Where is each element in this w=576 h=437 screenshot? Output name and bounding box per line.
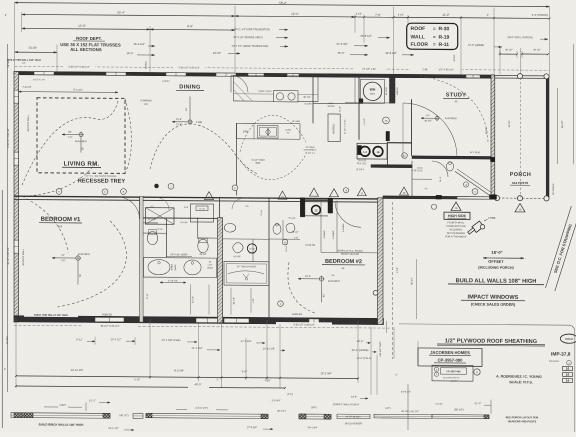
high side note box bbox=[444, 212, 470, 219]
circled 78 tag bbox=[343, 188, 348, 193]
bed2 closet walls bbox=[305, 215, 328, 217]
refrigerator bbox=[328, 114, 340, 142]
oven box and circles 1-4 1E bbox=[357, 143, 387, 159]
filled dot tag on marriage line bbox=[155, 184, 159, 188]
window symbols top wall bbox=[34, 72, 54, 75]
kitchen dashed circles bbox=[240, 115, 306, 152]
beam detail 2 bbox=[146, 413, 268, 418]
pointing hand look icon bbox=[467, 220, 486, 237]
corner lazy susan cabinet diagonals bbox=[234, 82, 253, 101]
study fan prep bbox=[435, 116, 439, 120]
hitch oval bbox=[560, 334, 576, 343]
dark circle tag 12 bbox=[312, 205, 321, 214]
bedroom1-bath wall bbox=[140, 196, 144, 322]
circled tag 28 bbox=[383, 117, 390, 124]
left exterior wall hatched bbox=[14, 71, 19, 322]
bath2 corner shower diagonal bbox=[455, 171, 490, 195]
bath2 counter bbox=[411, 161, 413, 196]
beam detail 3 bbox=[299, 414, 331, 419]
circled letter tags on walls bbox=[56, 189, 62, 195]
overall width dimension 56'-2" bbox=[15, 3, 550, 7]
window symbols bottom wall bbox=[95, 317, 124, 322]
title block enclosure rounded frame bbox=[399, 324, 575, 434]
study dashed ceiling curve bbox=[420, 76, 488, 144]
porch interior vertical dashes bbox=[520, 78, 522, 198]
bedroom1 ceiling dashed arc bbox=[55, 220, 126, 308]
bath2 door arc bbox=[432, 161, 448, 177]
hall bath sink bbox=[286, 223, 295, 232]
hall door header posts bbox=[300, 198, 305, 217]
water heater WH bbox=[361, 79, 385, 103]
circled 6 tag bbox=[278, 301, 284, 307]
living fan prep symbol bbox=[79, 133, 83, 137]
window in right-section bottom wall bbox=[457, 197, 490, 199]
water closet 4LT box bbox=[191, 204, 214, 222]
kitchen sink bbox=[258, 125, 279, 138]
bottom wall wide windows bbox=[196, 318, 219, 323]
triangle tag 15a bbox=[278, 191, 287, 199]
post in right bottom wall bbox=[436, 195, 442, 199]
bedroom1 door arc bbox=[118, 197, 140, 219]
circled tag 16 bbox=[402, 153, 408, 159]
master bath interior partitions bbox=[166, 218, 168, 257]
window symbols left wall bbox=[14, 90, 18, 103]
jacobsen homes title bbox=[418, 348, 482, 366]
dim lines below shower bbox=[230, 288, 232, 315]
master tub with X bbox=[146, 208, 175, 225]
beam detail 4 bbox=[374, 414, 432, 418]
thin shower bbox=[224, 261, 269, 285]
permit sub-box bbox=[432, 365, 473, 381]
hall-bath2 divider wall bbox=[371, 165, 412, 168]
build thin walls note on bottom wall bbox=[24, 312, 78, 317]
vanity circle tag bbox=[247, 244, 256, 253]
bath3 partition lines bbox=[223, 238, 270, 240]
living ceiling dashed curves bbox=[22, 100, 118, 186]
EL panel wall by WH bbox=[390, 77, 396, 104]
triangle tag 13 bbox=[205, 192, 214, 200]
bedroom1 fan prep bbox=[76, 256, 80, 260]
study door arc bbox=[403, 103, 457, 157]
hall closet lines bbox=[354, 76, 356, 102]
porch posts bbox=[517, 74, 522, 79]
kitchen top counter bbox=[234, 75, 319, 101]
master bath top walls bbox=[143, 222, 158, 224]
porch right outside dims bbox=[557, 88, 559, 164]
page left edge line bbox=[7, 44, 9, 392]
diagonal strapping note bbox=[545, 206, 576, 291]
main dim row D line bbox=[16, 376, 358, 379]
wall below study bbox=[412, 156, 491, 159]
door at dining top wall bbox=[231, 75, 248, 92]
marriage wall line across - double line bbox=[14, 196, 378, 199]
bath2 top wall bbox=[387, 142, 412, 144]
bath3 toilet bbox=[224, 223, 236, 232]
bath3 sink pear bbox=[233, 243, 243, 253]
dining ceiling dashed curve bbox=[150, 124, 232, 170]
porch top edge line bbox=[494, 75, 546, 77]
kitchen island bar bbox=[237, 123, 301, 139]
bottom vertical extension lines bbox=[15, 318, 17, 388]
beam detail 1b bbox=[133, 413, 143, 418]
triangle tag 16b bbox=[515, 203, 525, 211]
hall wall above master bath bbox=[143, 217, 218, 220]
right section bottom wall bbox=[383, 196, 494, 199]
dimension line 35'-4 / 12'-1 / porch segments bbox=[22, 14, 235, 16]
circled 30 bbox=[282, 239, 288, 245]
center hatched wall bbox=[218, 218, 223, 323]
master toilet 2 bbox=[198, 239, 208, 253]
recessed trey dashed rectangle bbox=[37, 98, 125, 174]
hall bath toilet bbox=[273, 224, 281, 234]
bedroom2 fan prep bbox=[319, 277, 323, 281]
wall circle tag bbox=[373, 290, 378, 295]
master toilet 1 bbox=[147, 232, 157, 245]
dark appliance slot bbox=[358, 145, 362, 154]
master vanity counter bbox=[144, 258, 217, 278]
top exterior wall bbox=[14, 71, 494, 78]
kitchen nook wall bbox=[312, 76, 314, 123]
circle tag near high side wall bbox=[431, 204, 436, 209]
bedroom2 ceiling dashed arc bbox=[288, 262, 316, 313]
dimension line 15'-8 / 8'-8 bbox=[22, 27, 150, 30]
kitchen range cooktop bbox=[274, 91, 299, 102]
bath-bed2 wall bbox=[268, 197, 270, 322]
bottom exterior wall left section bbox=[14, 316, 384, 325]
roof wall floor R-value box bbox=[407, 23, 458, 49]
dining fan prep symbol bbox=[188, 120, 192, 124]
bedroom2 door arc bbox=[335, 201, 361, 227]
triangle tag t3 bbox=[310, 188, 319, 196]
overall row E 45-0 bbox=[16, 386, 188, 387]
hall wall by kitchen bbox=[313, 102, 359, 104]
study right wall hatched house-porch divider bbox=[491, 75, 495, 197]
triangle tag 12t bbox=[357, 188, 366, 196]
window size line below plan bbox=[14, 325, 390, 328]
top dimension extension verticals bbox=[14, 3, 16, 71]
study left wall bbox=[411, 99, 413, 156]
right wall of left section hatched bbox=[378, 198, 384, 325]
kitchen left wall line bbox=[236, 123, 238, 195]
triangle tag 16a bbox=[451, 202, 461, 210]
triangle tag 15b bbox=[400, 187, 409, 195]
right of bed2 dims bbox=[392, 202, 394, 359]
triangle tag t4 bbox=[330, 189, 339, 197]
porch right wall bbox=[546, 75, 549, 198]
window schedule line 2-30 1/2 x 60 1/4 bbox=[15, 66, 550, 70]
bath2 toilet bbox=[446, 162, 453, 171]
living interior dim line bbox=[19, 91, 119, 94]
hall bath small walls bbox=[269, 238, 300, 240]
porch bottom edge dashed bbox=[494, 197, 546, 199]
black corner posts near porch bbox=[491, 157, 495, 162]
beam detail 1 bbox=[11, 413, 110, 419]
